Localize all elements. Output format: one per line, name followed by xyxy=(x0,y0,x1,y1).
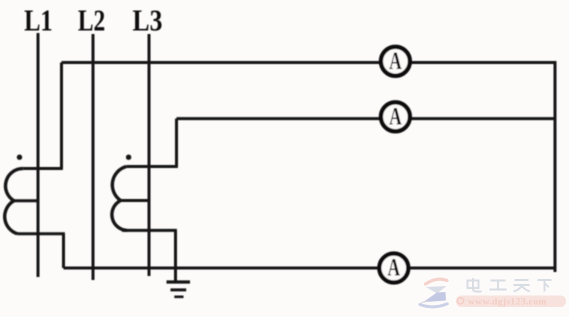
wire CT1 bottom riser xyxy=(62,234,65,268)
wire middle bus xyxy=(177,117,556,120)
transformer CT1 secondary coil xyxy=(5,169,24,234)
svg-text:A: A xyxy=(388,255,401,282)
transformer CT2 secondary coil xyxy=(112,167,127,231)
ammeter A3 xyxy=(379,254,408,283)
svg-text:L2: L2 xyxy=(78,2,105,37)
ammeter A1 xyxy=(381,47,410,76)
wire L2 line vertical xyxy=(92,34,95,280)
下 xyxy=(538,280,552,292)
wire L3 line vertical xyxy=(148,34,151,276)
svg-text:www.dgjs123.com: www.dgjs123.com xyxy=(468,298,547,308)
svg-text:L3: L3 xyxy=(133,2,163,37)
wire CT1 middle tap xyxy=(14,199,39,202)
wire CT1 top terminal xyxy=(23,167,63,170)
watermark url band xyxy=(456,296,566,308)
天 xyxy=(514,280,530,292)
wire CT2 top riser xyxy=(175,119,178,167)
wire CT2 bottom terminal xyxy=(122,229,177,232)
watermark logo xyxy=(418,279,448,307)
svg-text:A: A xyxy=(389,103,402,130)
wire right vertical xyxy=(554,61,557,272)
wire CT2 top terminal xyxy=(126,165,178,168)
wire CT1 top riser xyxy=(60,63,63,169)
ground symbol xyxy=(167,282,191,297)
wire bottom bus xyxy=(64,267,556,270)
wire CT1 bottom terminal xyxy=(18,232,65,235)
watermark text 电工天下 (simplified strokes) xyxy=(468,278,552,292)
wire CT2 bottom riser to ground xyxy=(174,230,177,281)
ammeter A2 xyxy=(381,102,410,131)
transformer CT2 polarity dot xyxy=(126,155,131,160)
wire L1 line vertical xyxy=(37,33,40,277)
svg-text:A: A xyxy=(389,48,402,75)
transformer CT1 polarity dot xyxy=(17,155,22,160)
电 xyxy=(468,281,479,289)
工 xyxy=(490,281,507,290)
wire top bus xyxy=(62,61,556,64)
svg-text:L1: L1 xyxy=(24,2,53,37)
wire CT2 middle tap xyxy=(121,199,151,202)
